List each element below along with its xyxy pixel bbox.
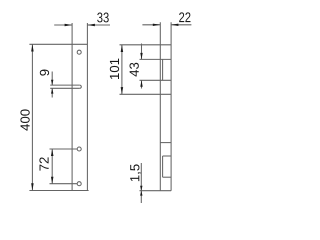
plate left edge + 33-dim extension (71, 23, 73, 191)
dim 22 label (179, 12, 190, 22)
dim 72 leader bottom to hole bottom (50, 183, 78, 185)
dim 43 arrow up (140, 80, 142, 87)
hook block 2 inner edge (162, 156, 164, 177)
dim 400 arrow up (31, 44, 34, 51)
profile step line (160, 142, 171, 144)
dim 400 arrow down (31, 183, 34, 190)
dim 43 arrow down (140, 53, 142, 60)
hook block 1 inner edge (162, 59, 164, 80)
hook block 2 top edge (163, 155, 172, 157)
dim 33 label (97, 13, 109, 23)
dim 400 line (31, 44, 33, 190)
dim 101 label (110, 59, 119, 79)
dim 101 arrow up (121, 45, 124, 52)
dim 101 line (121, 45, 123, 95)
dim 9 line lower (51, 88, 53, 97)
dim 1,5 line (140, 163, 142, 203)
dim 22 line right (171, 24, 191, 26)
dim 43 line lower (141, 80, 143, 88)
dim 72 leader top to hole middle (50, 148, 78, 150)
dim 22 arrow right-pointing (153, 24, 161, 26)
hole bottom (77, 182, 81, 186)
dim 72 arrow up (51, 149, 54, 156)
hook block 2 bottom edge (163, 176, 172, 178)
dim 1,5 arrow up (140, 191, 142, 196)
plate top edge + 400-dim extension (29, 43, 87, 45)
plate right edge + 33-dim extension (86, 23, 88, 191)
dim 9 line upper (51, 72, 53, 86)
dim 22 line left (142, 24, 160, 26)
dim 33 line right (87, 24, 110, 26)
profile top edge + 101-dim extension (120, 44, 172, 46)
dim 9 label (40, 70, 49, 76)
profile bottom edge + 1,5-dim extension (140, 190, 172, 192)
dim 101 arrow down (121, 87, 124, 94)
hook line 3 + 101-dim extension (120, 93, 172, 95)
dim 1,5 label (130, 164, 141, 181)
dim 33 arrow left-pointing (87, 24, 95, 26)
profile right edge + 22-dim extension (170, 22, 172, 191)
dim 1,5 arrow down (140, 186, 142, 191)
dim 72 line (51, 149, 53, 184)
dim 72 label (39, 157, 48, 170)
dim 43 label (129, 63, 138, 77)
dim 33 arrow right-pointing (65, 24, 73, 26)
profile left edge + 22-dim extension (159, 22, 161, 191)
dim 33 line left (54, 24, 72, 26)
dim 400 label (20, 109, 29, 130)
dim 9 arrow up (51, 88, 53, 93)
slot rounded end (80, 85, 82, 88)
slot bottom edge + 9-dim extension (50, 87, 79, 89)
slot top edge + 9-dim extension (50, 84, 79, 86)
dim 9 arrow down (51, 80, 53, 85)
hole middle (77, 147, 81, 151)
hole top (77, 50, 81, 54)
hook line 2 + 43-dim extension (140, 79, 172, 81)
dim 43 line upper (141, 44, 143, 60)
plate bottom edge + 400-dim extension (29, 190, 88, 192)
dim 72 arrow down (51, 177, 54, 184)
dim 22 arrow left-pointing (171, 24, 178, 26)
hook line 1 + 43-dim extension (140, 58, 172, 60)
